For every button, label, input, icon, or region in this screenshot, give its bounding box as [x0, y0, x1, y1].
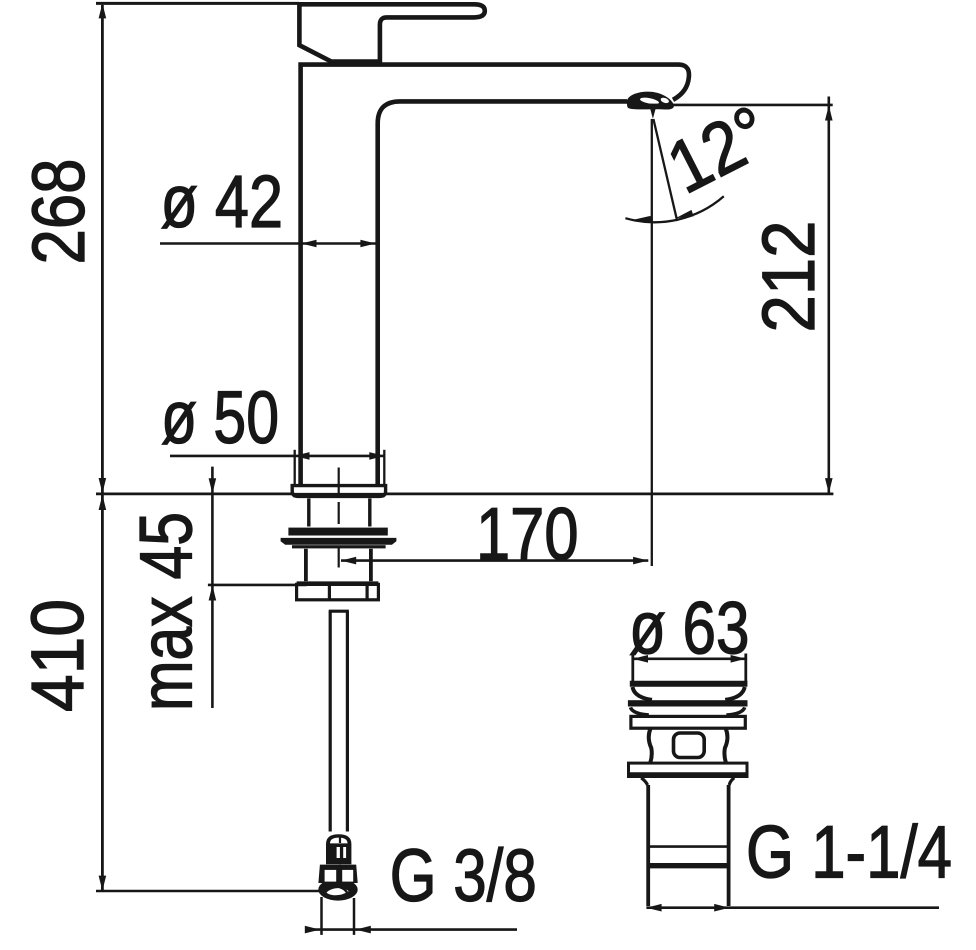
drain shoulder left: [641, 778, 647, 785]
mounting nut right side: [369, 549, 373, 581]
arrow up 212: [825, 105, 833, 120]
drain funnel left: [633, 687, 653, 700]
arc arrow left: [633, 216, 652, 223]
faucet spout underside and column right edge: [378, 101, 627, 485]
threaded shank right: [368, 498, 371, 526]
arrow left ø63: [633, 655, 648, 663]
arrow right ø63: [731, 655, 746, 663]
arrow right ø50: [369, 452, 384, 460]
svg-text:410: 410: [16, 599, 99, 712]
arrow left 170: [341, 557, 356, 565]
arrow down max45: [209, 478, 217, 493]
countertop reference line: [96, 492, 833, 495]
arrow down bottom of 268: [99, 478, 107, 493]
supply hose top: [329, 610, 349, 613]
fitting swoosh notch: [340, 887, 348, 894]
svg-text:212: 212: [747, 221, 830, 333]
dimension line 268/410 left vertical: [101, 5, 104, 891]
svg-text:ø 50: ø 50: [161, 376, 279, 459]
flange bottom thick edge: [294, 493, 385, 498]
drain flare left: [631, 707, 649, 715]
mounting nut left side: [304, 549, 308, 581]
dimension line 212: [827, 97, 830, 494]
drain flange bottom thick: [629, 772, 748, 777]
top reference line: [96, 2, 299, 5]
drain band: [628, 700, 748, 706]
arrow up top of 268: [99, 3, 107, 18]
washer thin bar: [292, 545, 386, 548]
svg-text:ø 42: ø 42: [161, 160, 284, 243]
dimension line ø50: [170, 455, 385, 458]
drain funnel right: [725, 687, 745, 700]
drain neck left: [649, 728, 652, 763]
arrow up max45: [209, 585, 217, 600]
supply hose right wall: [346, 611, 349, 831]
threaded shank left: [307, 498, 310, 526]
collar slot 2: [343, 847, 346, 858]
drain shoulder right: [729, 778, 734, 785]
washer lower wide: [281, 538, 397, 545]
arrow right 170: [633, 557, 648, 565]
drain thread line thin: [648, 845, 728, 848]
arrow right G114: [714, 904, 729, 912]
nut cap divider 1: [328, 584, 331, 599]
extension line ø63 left: [631, 654, 634, 684]
dimension line G114: [646, 906, 939, 909]
bottom reference line 410: [96, 890, 320, 893]
aerator highlight slit: [640, 96, 660, 105]
collar slot 1: [337, 847, 340, 858]
extension line ø50 left: [294, 450, 296, 485]
arrow left G114: [646, 904, 661, 912]
arrow right G38: [305, 926, 320, 934]
svg-text:12°: 12°: [655, 89, 783, 209]
svg-text:268: 268: [17, 159, 100, 265]
reference line 212 top: [648, 104, 833, 107]
angle arc: [625, 196, 723, 222]
collar arch window: [330, 838, 348, 844]
faucet body left edge and spout top: [301, 65, 689, 486]
svg-text:max 45: max 45: [125, 512, 208, 711]
reference line max45 bottom: [208, 584, 307, 587]
washer upper: [288, 528, 387, 536]
faucet handle lever: [299, 4, 484, 61]
dimension line 170: [341, 559, 648, 562]
spout aerator tip: [627, 92, 674, 110]
dimension line G38: [308, 928, 517, 931]
drain plug cap top: [630, 681, 748, 687]
extension line ø50 right: [383, 450, 385, 485]
fitting highlight swoosh: [327, 888, 349, 895]
nut cap divider 2: [366, 584, 369, 599]
drain neck right: [724, 728, 727, 763]
drain tube left: [646, 785, 650, 906]
fitting bottom ellipse: [318, 879, 357, 901]
faucet centerline: [339, 468, 340, 884]
drain tube right: [727, 785, 731, 906]
hose fitting collar: [326, 834, 351, 864]
dimension line ø42: [160, 242, 376, 245]
arrow left G38: [356, 926, 371, 934]
angle slanted leg: [653, 119, 677, 221]
tick G38 right: [353, 898, 356, 935]
angle vertex arrow: [650, 107, 657, 119]
arrow right ø42: [360, 240, 375, 248]
arrow down 212: [825, 478, 833, 493]
drain window square: [674, 733, 705, 758]
fitting hex white cell right: [342, 870, 353, 882]
base flange: [292, 486, 385, 497]
svg-text:G 3/8: G 3/8: [390, 834, 537, 917]
mounting nut bottom line: [297, 581, 379, 584]
supply hose left wall: [329, 611, 332, 831]
fitting hex white cell left: [325, 870, 337, 882]
extension line ø63 right: [744, 654, 747, 684]
drain ring: [631, 716, 745, 728]
fitting hex body dark: [318, 865, 357, 883]
tick G38 left: [320, 897, 323, 935]
aerator highlight small: [660, 97, 670, 104]
arc arrow right: [676, 210, 694, 218]
arrow up top of 410: [99, 495, 107, 510]
angle vertical leg: [651, 119, 653, 566]
arrow left ø50: [294, 452, 309, 460]
arrow down bottom of 410: [99, 876, 107, 891]
drain bottom flange: [629, 763, 748, 776]
dimension line max45: [211, 467, 214, 708]
svg-text:G 1-1/4: G 1-1/4: [746, 810, 952, 893]
drain flare right: [726, 707, 744, 715]
arrow left ø42: [301, 240, 316, 248]
dimension line ø63: [633, 657, 746, 660]
svg-text:170: 170: [476, 493, 579, 576]
nut bottom cap: [297, 584, 379, 599]
drain thread line thick: [648, 863, 728, 868]
